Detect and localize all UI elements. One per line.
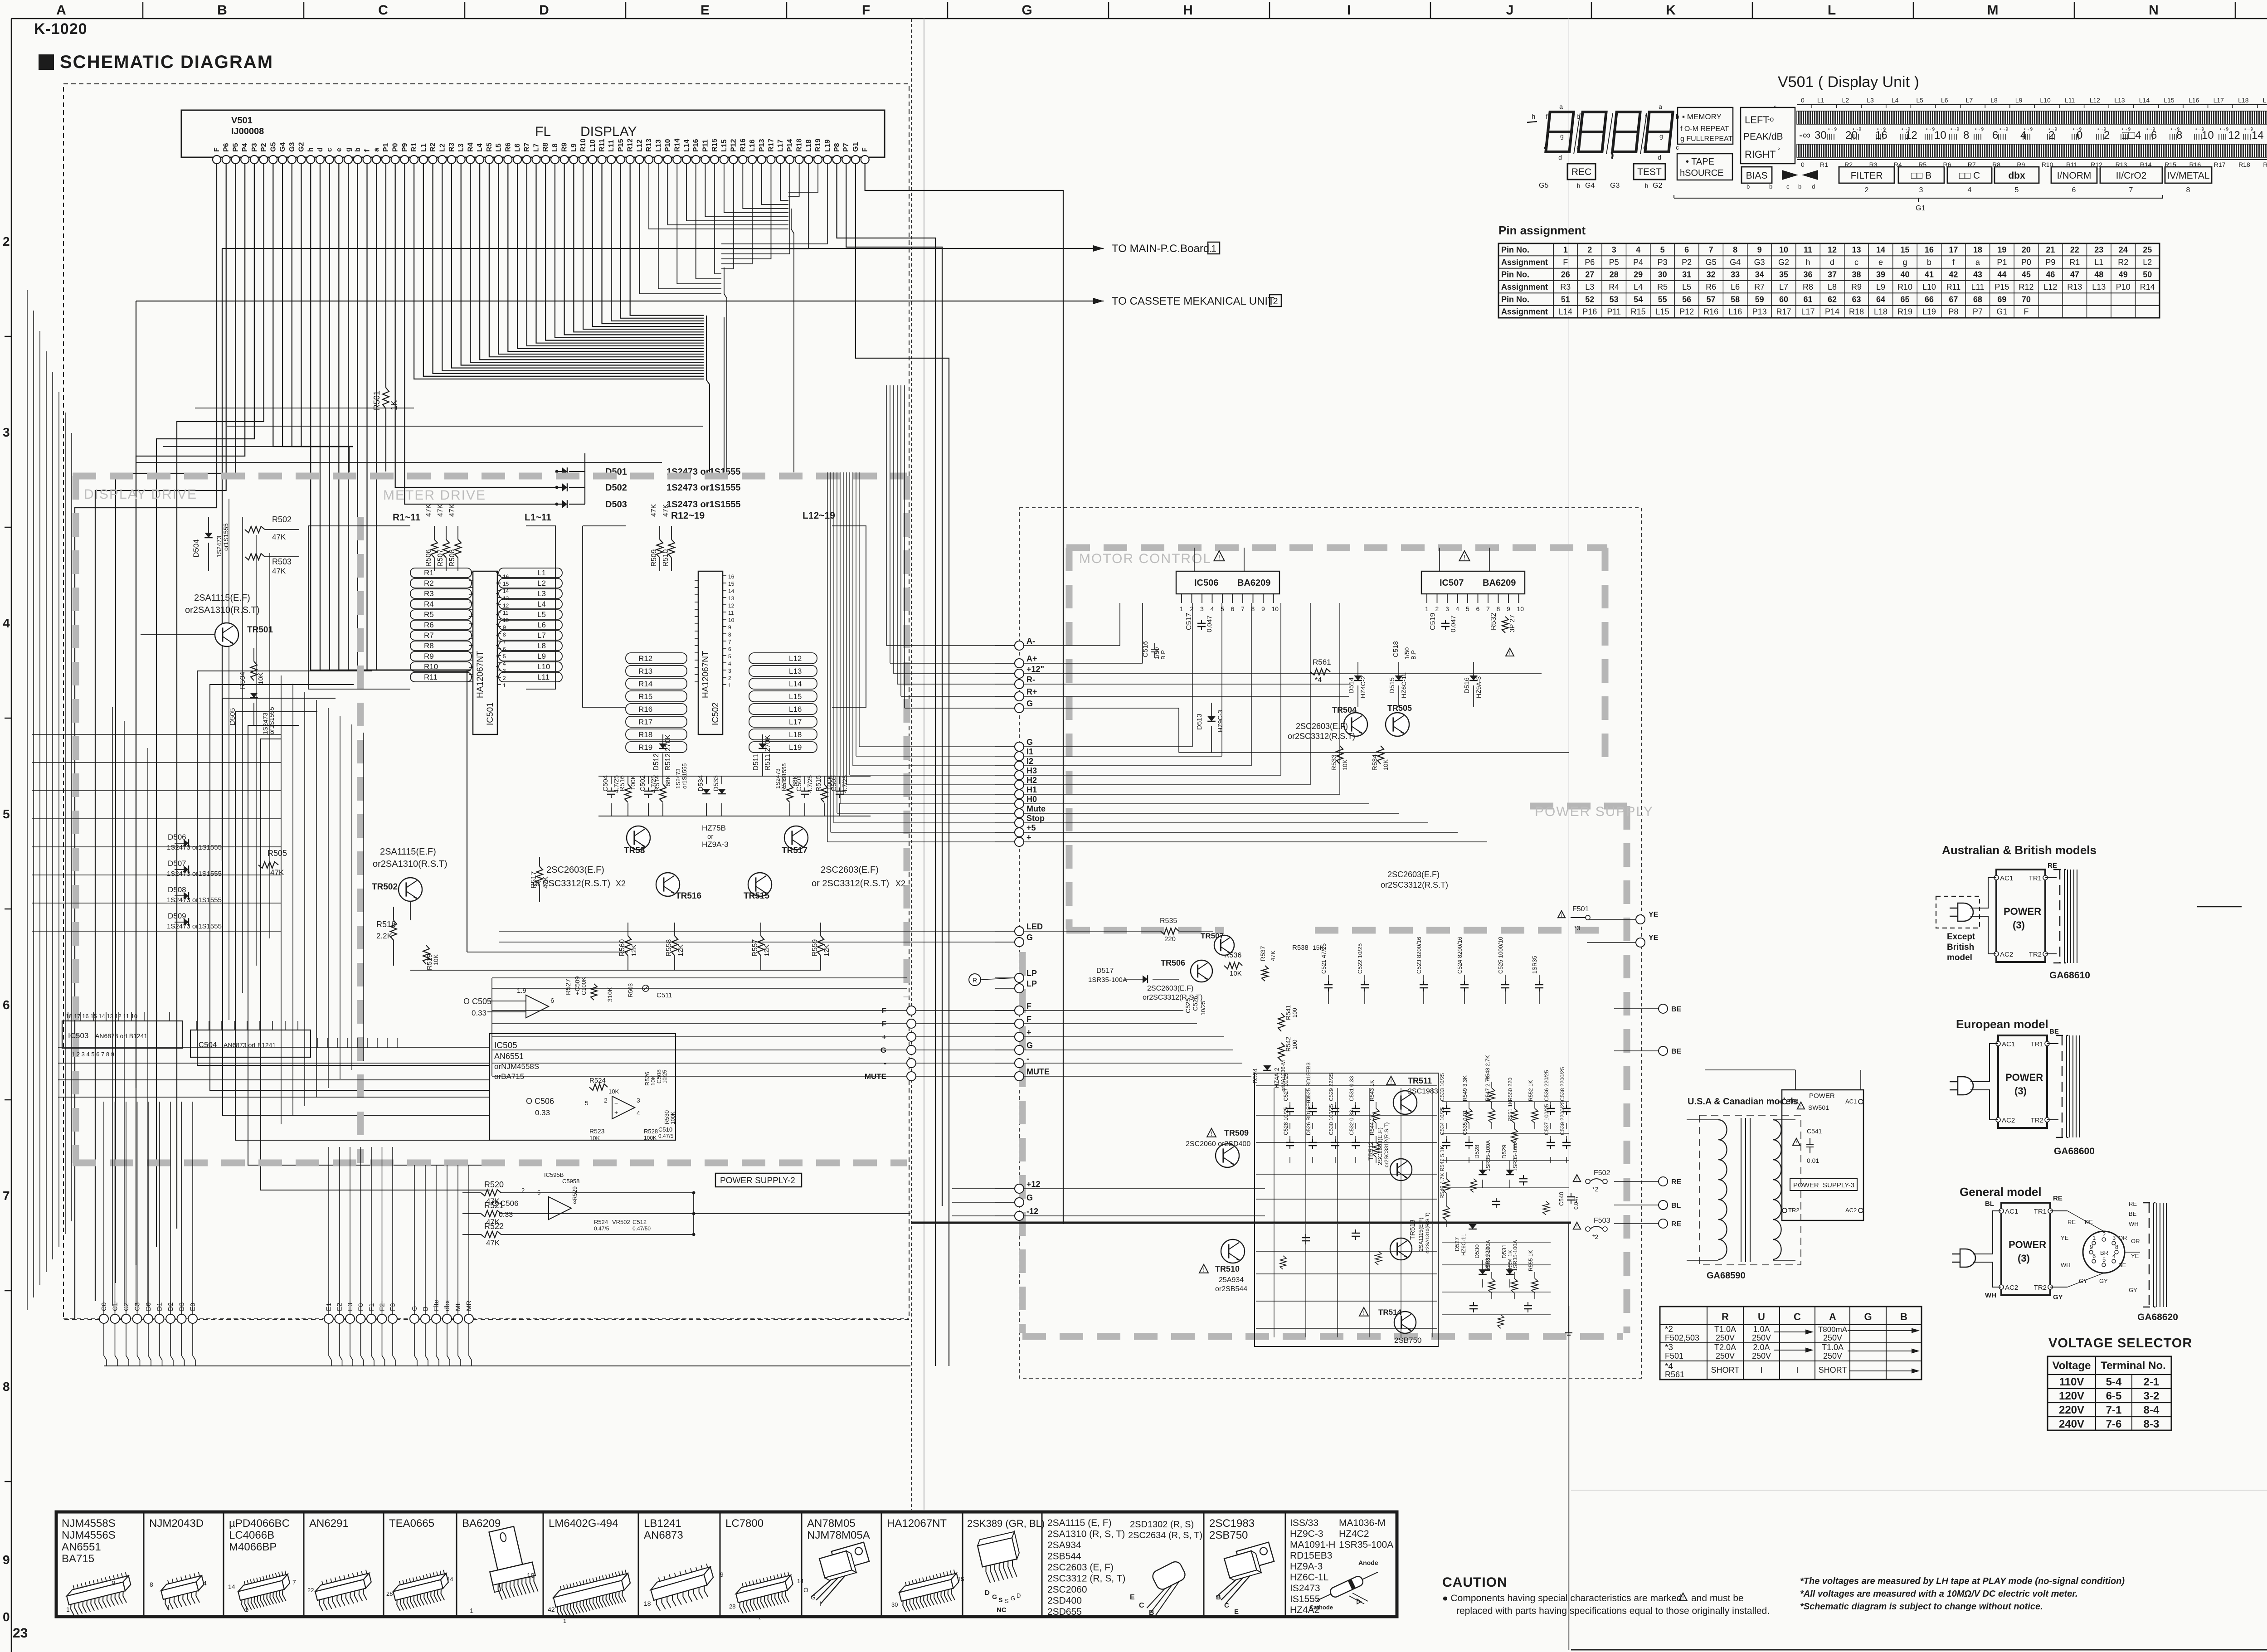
svg-text:2: 2 bbox=[1435, 605, 1439, 612]
svg-text:L9: L9 bbox=[2015, 97, 2023, 104]
svg-text:R524: R524 bbox=[594, 1219, 608, 1225]
svg-text:D: D bbox=[1017, 1592, 1021, 1599]
svg-text:L11: L11 bbox=[2065, 97, 2075, 104]
svg-text:100K: 100K bbox=[670, 1112, 676, 1124]
svg-text:B: B bbox=[1900, 1311, 1907, 1322]
svg-text:!: ! bbox=[1390, 1078, 1392, 1085]
svg-text:1S2473 or1S1555: 1S2473 or1S1555 bbox=[167, 923, 222, 930]
svg-text:R508: R508 bbox=[448, 549, 456, 567]
svg-text:18: 18 bbox=[1973, 245, 1982, 254]
svg-text:28: 28 bbox=[729, 1603, 735, 1610]
svg-text:50: 50 bbox=[2143, 270, 2152, 279]
svg-text:•→9: •→9 bbox=[2073, 127, 2082, 132]
svg-text:!: ! bbox=[1561, 913, 1562, 918]
svg-text:BE: BE bbox=[1671, 1006, 1682, 1013]
svg-text:43: 43 bbox=[1973, 270, 1982, 279]
svg-text:L12: L12 bbox=[2090, 97, 2101, 104]
svg-text:250V: 250V bbox=[1752, 1333, 1771, 1342]
svg-text:TR506: TR506 bbox=[1161, 958, 1185, 967]
svg-text:G3: G3 bbox=[1610, 182, 1620, 189]
svg-text:G: G bbox=[1026, 738, 1033, 747]
svg-text:L6: L6 bbox=[1941, 97, 1948, 104]
svg-text:C: C bbox=[1139, 1602, 1144, 1609]
svg-text:R535: R535 bbox=[1160, 917, 1177, 925]
svg-text:4.7/25: 4.7/25 bbox=[806, 775, 813, 793]
svg-text:BE: BE bbox=[2118, 1262, 2126, 1268]
svg-text:10/25: 10/25 bbox=[1200, 1001, 1206, 1015]
svg-text:L15: L15 bbox=[1656, 307, 1669, 316]
svg-text:D512: D512 bbox=[652, 753, 660, 771]
svg-text:6: 6 bbox=[2072, 186, 2076, 194]
svg-text:35: 35 bbox=[1779, 270, 1788, 279]
svg-text:R530: R530 bbox=[663, 1110, 670, 1124]
svg-text:R1: R1 bbox=[410, 142, 418, 152]
svg-text:34: 34 bbox=[1755, 270, 1764, 279]
svg-text:2SA1115(E.F): 2SA1115(E.F) bbox=[1418, 1218, 1424, 1251]
svg-text:R11: R11 bbox=[1946, 282, 1961, 292]
svg-text:47K: 47K bbox=[437, 504, 444, 517]
svg-text:14: 14 bbox=[447, 1576, 453, 1583]
svg-text:10: 10 bbox=[527, 1572, 535, 1579]
svg-text:4: 4 bbox=[1211, 605, 1214, 612]
svg-text:e: e bbox=[335, 148, 343, 152]
svg-text:+C509: +C509 bbox=[574, 976, 581, 995]
svg-text:IC506: IC506 bbox=[1194, 578, 1218, 588]
svg-text:3: 3 bbox=[637, 1097, 640, 1104]
svg-text:Assignment: Assignment bbox=[1501, 282, 1548, 292]
svg-text:a: a bbox=[373, 148, 380, 152]
svg-text:or2SA1310(R.S.T): or2SA1310(R.S.T) bbox=[1425, 1213, 1430, 1254]
svg-text:9: 9 bbox=[1507, 605, 1510, 612]
svg-text:8: 8 bbox=[2186, 186, 2190, 194]
svg-text:L15: L15 bbox=[2164, 97, 2175, 104]
svg-text:HZ9A-3: HZ9A-3 bbox=[1290, 1561, 1323, 1572]
svg-text:R12~19: R12~19 bbox=[671, 510, 705, 521]
svg-text:R9: R9 bbox=[1851, 282, 1862, 292]
svg-text:or: or bbox=[707, 833, 713, 841]
svg-text:IJ00008: IJ00008 bbox=[231, 126, 264, 136]
svg-text:F: F bbox=[862, 3, 870, 18]
svg-text:D530: D530 bbox=[1474, 1244, 1480, 1258]
svg-text:AC2: AC2 bbox=[2000, 951, 2013, 958]
svg-text:−: − bbox=[614, 1099, 618, 1107]
svg-text:R7: R7 bbox=[1754, 282, 1765, 292]
svg-text:R19: R19 bbox=[814, 139, 822, 152]
svg-text:R14: R14 bbox=[2140, 282, 2155, 292]
svg-text:L9: L9 bbox=[570, 143, 578, 152]
svg-text:6: 6 bbox=[1476, 605, 1480, 612]
svg-text:63: 63 bbox=[1852, 295, 1861, 304]
svg-text:*3: *3 bbox=[1665, 1343, 1673, 1352]
svg-text:4: 4 bbox=[1636, 245, 1640, 254]
svg-text:Stop: Stop bbox=[1026, 814, 1045, 823]
svg-text:R12: R12 bbox=[638, 654, 652, 663]
svg-text:I1: I1 bbox=[1026, 747, 1033, 756]
svg-text:d: d bbox=[1658, 154, 1661, 161]
svg-text:L1: L1 bbox=[420, 143, 428, 152]
svg-text:R16: R16 bbox=[638, 705, 652, 714]
svg-text:TO CASSETE MEKANICAL UNIT: TO CASSETE MEKANICAL UNIT bbox=[1112, 295, 1275, 307]
svg-text:R3: R3 bbox=[448, 142, 456, 152]
svg-text:P12: P12 bbox=[730, 139, 738, 152]
svg-text:R2: R2 bbox=[2118, 258, 2128, 267]
svg-text:C528 10/25: C528 10/25 bbox=[1283, 1107, 1289, 1135]
svg-text:T1.0A: T1.0A bbox=[1714, 1325, 1736, 1334]
svg-text:66: 66 bbox=[1925, 295, 1934, 304]
svg-text:49: 49 bbox=[2119, 270, 2128, 279]
svg-text:54: 54 bbox=[1634, 295, 1643, 304]
svg-text:TR2: TR2 bbox=[1788, 1207, 1800, 1214]
svg-text:PEAK/dB: PEAK/dB bbox=[1743, 131, 1783, 142]
svg-text:TR58: TR58 bbox=[624, 846, 645, 855]
svg-text:R510: R510 bbox=[662, 549, 670, 567]
svg-text:f: f bbox=[1645, 113, 1647, 120]
svg-text:P2: P2 bbox=[1682, 258, 1692, 267]
svg-text:R16: R16 bbox=[739, 139, 747, 152]
svg-text:L11: L11 bbox=[1971, 282, 1985, 292]
svg-text:R501: R501 bbox=[372, 391, 381, 410]
svg-text:British: British bbox=[1947, 943, 1974, 952]
svg-text:e: e bbox=[1643, 144, 1647, 151]
svg-text:2SC1983: 2SC1983 bbox=[1408, 1088, 1438, 1095]
svg-text:61: 61 bbox=[1804, 295, 1813, 304]
svg-text:TR2: TR2 bbox=[2031, 1117, 2043, 1124]
svg-text:4: 4 bbox=[1456, 605, 1459, 612]
svg-text:47K: 47K bbox=[270, 868, 284, 877]
svg-text:AC1: AC1 bbox=[1845, 1098, 1857, 1105]
svg-text:P3: P3 bbox=[251, 143, 258, 152]
svg-text:P7: P7 bbox=[842, 143, 850, 152]
svg-text:30: 30 bbox=[1658, 270, 1667, 279]
svg-text:*2: *2 bbox=[1665, 1325, 1673, 1334]
svg-text:AC2: AC2 bbox=[2002, 1117, 2015, 1124]
svg-text:a: a bbox=[1659, 103, 1662, 110]
svg-text:H0: H0 bbox=[1026, 795, 1037, 804]
svg-text:R10: R10 bbox=[424, 662, 438, 671]
svg-text:*2: *2 bbox=[1592, 1233, 1598, 1240]
svg-text:A+: A+ bbox=[1026, 654, 1037, 663]
svg-text:N: N bbox=[2149, 3, 2159, 18]
svg-text:O: O bbox=[803, 1586, 808, 1594]
svg-text:b: b bbox=[1798, 183, 1801, 190]
svg-text:L9: L9 bbox=[537, 652, 546, 661]
svg-text:L13: L13 bbox=[789, 667, 802, 675]
svg-text:15: 15 bbox=[958, 1576, 964, 1583]
svg-text:!: ! bbox=[1800, 1104, 1802, 1109]
svg-text:C100K: C100K bbox=[580, 977, 587, 995]
svg-text:L10: L10 bbox=[1922, 282, 1936, 292]
svg-text:68K: 68K bbox=[664, 775, 671, 787]
svg-text:•→9: •→9 bbox=[2024, 127, 2033, 132]
svg-text:or2SA1310(R.S.T): or2SA1310(R.S.T) bbox=[185, 605, 260, 615]
svg-text:-o: -o bbox=[1767, 116, 1774, 123]
svg-text:•→9: •→9 bbox=[1902, 127, 1911, 132]
svg-text:TR507: TR507 bbox=[1201, 932, 1224, 940]
svg-text:L8: L8 bbox=[551, 143, 559, 152]
svg-text:5: 5 bbox=[503, 653, 506, 660]
svg-text:L6: L6 bbox=[537, 621, 546, 629]
svg-text:R504: R504 bbox=[239, 672, 247, 689]
svg-text:Mute: Mute bbox=[1026, 804, 1046, 813]
svg-text:23: 23 bbox=[13, 1626, 28, 1641]
svg-text:10K: 10K bbox=[1230, 970, 1242, 977]
svg-text:4: 4 bbox=[637, 1109, 640, 1117]
svg-text:R528: R528 bbox=[644, 1128, 658, 1135]
svg-text:0.47/5: 0.47/5 bbox=[594, 1225, 609, 1232]
svg-text:POWER: POWER bbox=[1809, 1092, 1835, 1100]
svg-text:R15: R15 bbox=[711, 139, 719, 152]
svg-text:G: G bbox=[881, 1046, 886, 1054]
svg-text:2SD655: 2SD655 bbox=[1047, 1607, 1082, 1617]
svg-text:31: 31 bbox=[1682, 270, 1691, 279]
svg-text:D: D bbox=[539, 3, 549, 18]
svg-text:C536 220/25: C536 220/25 bbox=[1543, 1070, 1550, 1101]
svg-text:V501: V501 bbox=[231, 116, 253, 126]
svg-text:R19: R19 bbox=[638, 743, 652, 752]
svg-text:R552 1K: R552 1K bbox=[1528, 1080, 1534, 1101]
svg-text:2: 2 bbox=[1587, 245, 1592, 254]
svg-text:d: d bbox=[316, 147, 324, 152]
svg-text:5-4: 5-4 bbox=[2106, 1376, 2122, 1388]
svg-text:1: 1 bbox=[1563, 245, 1568, 254]
svg-text:GY: GY bbox=[2129, 1287, 2137, 1293]
svg-text:C510: C510 bbox=[658, 1126, 672, 1133]
svg-text:G4: G4 bbox=[279, 142, 287, 152]
svg-text:R551 1K: R551 1K bbox=[1507, 1100, 1513, 1122]
svg-text:220: 220 bbox=[1164, 935, 1176, 943]
svg-text:P4: P4 bbox=[241, 143, 249, 152]
svg-text:2: 2 bbox=[2102, 1231, 2106, 1238]
svg-text:BL: BL bbox=[1671, 1202, 1681, 1210]
svg-text:67: 67 bbox=[1949, 295, 1958, 304]
svg-text:P1: P1 bbox=[382, 143, 390, 152]
svg-text:P10: P10 bbox=[2116, 282, 2131, 292]
svg-text:TEA0665: TEA0665 bbox=[389, 1517, 434, 1530]
svg-text:LC7800: LC7800 bbox=[725, 1517, 764, 1530]
svg-text:f O-M REPEAT: f O-M REPEAT bbox=[1680, 125, 1729, 133]
svg-text:Assignment: Assignment bbox=[1501, 307, 1548, 316]
svg-text:A-: A- bbox=[1026, 637, 1035, 646]
svg-text:RE: RE bbox=[2053, 1195, 2063, 1202]
svg-text:7: 7 bbox=[292, 1579, 296, 1586]
svg-text:BE: BE bbox=[2049, 1028, 2059, 1035]
svg-text:SHORT: SHORT bbox=[1711, 1365, 1740, 1375]
svg-text:6-5: 6-5 bbox=[2106, 1390, 2122, 1402]
svg-text:L18: L18 bbox=[789, 730, 802, 739]
svg-text:R9: R9 bbox=[424, 652, 434, 661]
svg-text:G: G bbox=[1011, 1595, 1015, 1602]
svg-text:47K: 47K bbox=[272, 533, 286, 541]
svg-text:WH: WH bbox=[2129, 1220, 2139, 1227]
svg-text:6: 6 bbox=[1231, 605, 1235, 612]
svg-text:4: 4 bbox=[728, 661, 731, 667]
svg-text:C: C bbox=[378, 3, 388, 18]
svg-text:L18: L18 bbox=[805, 139, 812, 152]
svg-text:g: g bbox=[1659, 132, 1663, 140]
svg-text:R537: R537 bbox=[1259, 946, 1266, 961]
svg-text:D517: D517 bbox=[1096, 967, 1114, 975]
svg-text:!: ! bbox=[1211, 1130, 1212, 1137]
svg-text:11: 11 bbox=[728, 610, 734, 616]
svg-text:R: R bbox=[973, 977, 977, 984]
svg-text:AN6291: AN6291 bbox=[309, 1517, 349, 1530]
svg-text:T800mA: T800mA bbox=[1818, 1325, 1848, 1334]
svg-text:P6: P6 bbox=[1585, 258, 1595, 267]
svg-text:C538 2200/25: C538 2200/25 bbox=[1559, 1067, 1566, 1101]
svg-text:47K: 47K bbox=[662, 504, 670, 517]
svg-text:G2: G2 bbox=[1653, 182, 1662, 189]
svg-text:G1: G1 bbox=[1916, 204, 1925, 212]
svg-text:P5: P5 bbox=[232, 143, 239, 152]
svg-text:D503: D503 bbox=[605, 500, 627, 510]
svg-text:12: 12 bbox=[2228, 129, 2240, 141]
svg-text:REC: REC bbox=[1571, 167, 1591, 177]
svg-text:C519: C519 bbox=[1429, 613, 1437, 630]
svg-text:6: 6 bbox=[1992, 129, 1998, 141]
svg-text:R516: R516 bbox=[618, 775, 626, 792]
svg-text:44: 44 bbox=[1997, 270, 2006, 279]
svg-text:2SA1310 (R, S, T): 2SA1310 (R, S, T) bbox=[1047, 1529, 1125, 1540]
svg-text:AN6873 orLB1241: AN6873 orLB1241 bbox=[95, 1032, 147, 1040]
svg-text:LB1241: LB1241 bbox=[644, 1517, 681, 1530]
svg-text:FL: FL bbox=[535, 124, 551, 139]
svg-text:!: ! bbox=[1796, 1141, 1797, 1146]
svg-text:•→9: •→9 bbox=[1926, 127, 1935, 132]
svg-text:F: F bbox=[1026, 1001, 1031, 1011]
svg-text:18 17 16 15 14 13 12 11 10: 18 17 16 15 14 13 12 11 10 bbox=[66, 1013, 137, 1020]
svg-text:f: f bbox=[364, 149, 371, 152]
svg-text:hSOURCE: hSOURCE bbox=[1680, 168, 1724, 178]
svg-text:60: 60 bbox=[1779, 295, 1788, 304]
svg-text:1.0A: 1.0A bbox=[1753, 1325, 1770, 1334]
svg-text:36: 36 bbox=[1804, 270, 1813, 279]
svg-text:L6: L6 bbox=[1731, 282, 1740, 292]
svg-text:R18: R18 bbox=[1849, 307, 1864, 316]
svg-text:R505: R505 bbox=[268, 849, 287, 858]
svg-text:GY: GY bbox=[2053, 1293, 2063, 1301]
svg-text:L11: L11 bbox=[537, 673, 550, 681]
svg-text:G1: G1 bbox=[1996, 307, 2007, 316]
svg-text:TR509: TR509 bbox=[1224, 1128, 1249, 1137]
svg-text:12K: 12K bbox=[823, 944, 831, 957]
svg-text:M4066BP: M4066BP bbox=[229, 1541, 277, 1553]
svg-text:dbx: dbx bbox=[2008, 170, 2025, 181]
svg-text:12K: 12K bbox=[677, 944, 685, 957]
svg-text:II/CrO2: II/CrO2 bbox=[2116, 170, 2147, 181]
svg-text:R9: R9 bbox=[561, 142, 569, 152]
svg-text:R503: R503 bbox=[627, 983, 634, 997]
svg-text:41: 41 bbox=[1925, 270, 1934, 279]
svg-text:2SB544: 2SB544 bbox=[1047, 1551, 1081, 1562]
svg-text:100: 100 bbox=[1291, 1008, 1298, 1018]
svg-text:P11: P11 bbox=[1607, 307, 1621, 316]
svg-text:European model: European model bbox=[1956, 1017, 2048, 1031]
svg-text:10: 10 bbox=[1517, 605, 1524, 612]
svg-text:Voltage: Voltage bbox=[2053, 1360, 2091, 1372]
svg-text:R19: R19 bbox=[2263, 161, 2267, 168]
svg-text:+5: +5 bbox=[1026, 823, 1036, 832]
svg-text:F: F bbox=[1026, 1015, 1031, 1024]
svg-text:30: 30 bbox=[1815, 129, 1827, 141]
svg-text:0.047: 0.047 bbox=[1573, 1196, 1579, 1210]
svg-text:BIAS: BIAS bbox=[1746, 170, 1768, 181]
svg-text:100: 100 bbox=[1291, 1040, 1298, 1050]
svg-text:1: 1 bbox=[245, 1606, 248, 1613]
svg-text:C502: C502 bbox=[639, 775, 647, 792]
svg-text:R16: R16 bbox=[1703, 307, 1718, 316]
svg-text:model: model bbox=[1947, 953, 1972, 962]
svg-text:1S2473: 1S2473 bbox=[215, 536, 223, 558]
svg-text:F502: F502 bbox=[1594, 1169, 1610, 1177]
svg-text:7: 7 bbox=[3, 1189, 10, 1203]
svg-text:R549 3.3K: R549 3.3K bbox=[1462, 1075, 1468, 1101]
svg-text:RE: RE bbox=[2068, 1219, 2076, 1225]
svg-text:C: C bbox=[1224, 1602, 1229, 1609]
svg-text:1/50: 1/50 bbox=[1403, 647, 1411, 660]
svg-text:L1: L1 bbox=[537, 568, 546, 577]
svg-text:L5: L5 bbox=[495, 143, 503, 152]
svg-text:AN6551: AN6551 bbox=[494, 1052, 524, 1061]
svg-text:TR510: TR510 bbox=[1215, 1264, 1240, 1273]
svg-text:R+: R+ bbox=[1026, 687, 1037, 696]
svg-text:R14: R14 bbox=[673, 139, 681, 152]
svg-text:GA68600: GA68600 bbox=[2054, 1146, 2095, 1156]
svg-text:R13: R13 bbox=[645, 139, 653, 152]
svg-text:7-1: 7-1 bbox=[2106, 1404, 2122, 1416]
svg-text:1: 1 bbox=[2092, 1234, 2096, 1241]
svg-text:7: 7 bbox=[728, 639, 731, 645]
svg-text:*All voltages are measured wit: *All voltages are measured with a 10MΩ/V… bbox=[1800, 1589, 2078, 1599]
svg-text:c: c bbox=[1854, 258, 1858, 267]
svg-text:replaced with parts having spe: replaced with parts having specification… bbox=[1456, 1606, 1770, 1616]
svg-text:1SR35-100A: 1SR35-100A bbox=[1512, 1240, 1518, 1271]
svg-text:L7: L7 bbox=[1966, 97, 1973, 104]
svg-text:R543 1K: R543 1K bbox=[1369, 1080, 1375, 1101]
svg-text:8: 8 bbox=[503, 632, 506, 638]
svg-text:26: 26 bbox=[1561, 270, 1570, 279]
svg-text:13: 13 bbox=[1852, 245, 1861, 254]
svg-text:1S2473 or1S1555: 1S2473 or1S1555 bbox=[666, 500, 740, 510]
svg-text:L15: L15 bbox=[720, 139, 728, 152]
svg-text:G5: G5 bbox=[1706, 258, 1717, 267]
svg-text:L1: L1 bbox=[1817, 97, 1824, 104]
svg-text:R523: R523 bbox=[589, 1127, 605, 1135]
svg-text:240V: 240V bbox=[2059, 1418, 2084, 1430]
svg-text:L17: L17 bbox=[1801, 307, 1815, 316]
svg-text:R8: R8 bbox=[424, 641, 434, 650]
svg-text:L19: L19 bbox=[1922, 307, 1936, 316]
svg-text:or1S1555: or1S1555 bbox=[268, 707, 275, 734]
svg-text:•→9: •→9 bbox=[2171, 127, 2180, 132]
svg-text:L3: L3 bbox=[457, 143, 465, 152]
svg-text:TR505: TR505 bbox=[1387, 704, 1412, 713]
svg-text:Assignment: Assignment bbox=[1501, 258, 1548, 267]
svg-text:L12~19: L12~19 bbox=[803, 510, 835, 521]
svg-text:b: b bbox=[1746, 183, 1750, 190]
svg-text:47K: 47K bbox=[1270, 951, 1276, 961]
svg-text:TEST: TEST bbox=[1637, 167, 1662, 177]
svg-text:2SD400: 2SD400 bbox=[1047, 1596, 1082, 1606]
svg-text:L14: L14 bbox=[2139, 97, 2150, 104]
svg-text:R546 4.7K: R546 4.7K bbox=[1439, 1173, 1445, 1199]
svg-text:1SR35-100A: 1SR35-100A bbox=[1088, 976, 1127, 984]
svg-text:L16: L16 bbox=[1728, 307, 1742, 316]
svg-text:2SC3312 (R, S, T): 2SC3312 (R, S, T) bbox=[1047, 1574, 1125, 1584]
svg-text:POWER: POWER bbox=[2005, 1072, 2043, 1083]
svg-text:2SB750: 2SB750 bbox=[1394, 1336, 1422, 1345]
svg-text:I2: I2 bbox=[1026, 757, 1033, 766]
svg-text:C522 10/25: C522 10/25 bbox=[1357, 943, 1363, 974]
